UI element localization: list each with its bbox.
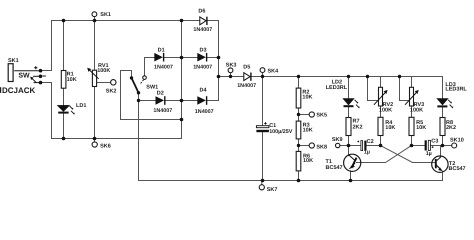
diode D2 xyxy=(156,96,165,105)
svg-text:D4: D4 xyxy=(200,88,208,94)
svg-text:1N4007: 1N4007 xyxy=(193,27,212,33)
LED LD3 xyxy=(437,99,448,105)
wire cross coupling to T1 base xyxy=(357,146,412,163)
wire top rail xyxy=(52,20,201,22)
wire SW1 net to bridge xyxy=(121,119,182,121)
svg-text:D5: D5 xyxy=(243,64,250,70)
svg-text:10K: 10K xyxy=(416,125,426,131)
wire T2 emitter to rail xyxy=(442,171,444,180)
LED LD1 xyxy=(57,105,69,111)
capacitor C2 plus mark xyxy=(357,141,359,143)
svg-text:BC547: BC547 xyxy=(326,165,343,171)
diode D1 xyxy=(154,53,163,62)
junction dots bottom rail xyxy=(62,137,66,141)
wire DC jack sleeve down xyxy=(41,83,52,139)
capacitor C1 plus xyxy=(264,122,267,125)
trimmer RV2 body xyxy=(379,87,383,106)
terminal SK1 top xyxy=(92,12,97,17)
svg-text:SK10: SK10 xyxy=(450,138,464,144)
wire SK7 stub xyxy=(261,181,263,185)
wire T1 emitter to rail xyxy=(350,171,352,181)
DC jack sleeve prong xyxy=(34,82,41,84)
svg-text:100K: 100K xyxy=(97,68,110,74)
resistor R7 xyxy=(346,118,351,136)
svg-text:LED3RL: LED3RL xyxy=(326,85,348,91)
switch SW1 lever xyxy=(132,78,139,93)
LED LD3 arrows xyxy=(448,100,452,107)
junction dots resistor column xyxy=(297,113,300,116)
LED LD1 arrows xyxy=(70,106,74,113)
svg-text:2K2: 2K2 xyxy=(353,124,363,130)
svg-text:C2: C2 xyxy=(367,139,374,145)
DC jack switch arrow xyxy=(32,78,36,82)
terminal SK9 xyxy=(336,143,340,147)
wire T1 collector xyxy=(348,146,350,156)
svg-text:D2: D2 xyxy=(157,91,164,97)
DC jack switch prong xyxy=(33,75,41,77)
resistor R4 xyxy=(378,117,383,135)
svg-text:BC547: BC547 xyxy=(449,166,466,172)
wire row2 left xyxy=(349,145,362,147)
svg-text:D1: D1 xyxy=(158,47,165,53)
wire bridge left vertical xyxy=(181,21,183,120)
switch SW1 dashes xyxy=(141,80,144,84)
wire LD2 R7 chain xyxy=(348,77,350,146)
wire RV2 chain xyxy=(380,77,382,146)
svg-text:1N4007: 1N4007 xyxy=(153,108,172,114)
resistor R3 xyxy=(296,121,301,139)
resistor R6 xyxy=(296,151,301,171)
svg-text:100K: 100K xyxy=(379,107,392,113)
svg-text:SK6: SK6 xyxy=(100,144,111,150)
wire RV1 chain xyxy=(94,17,96,139)
wire T2 collector xyxy=(440,146,442,157)
svg-text:1N4007: 1N4007 xyxy=(237,83,256,89)
wire C1 chain xyxy=(262,77,264,181)
wire R5 node to C3 xyxy=(412,145,425,147)
svg-text:DCJACK: DCJACK xyxy=(2,86,36,95)
svg-text:SK5: SK5 xyxy=(316,113,327,119)
resistor R8 xyxy=(440,118,445,136)
switch SW1 contact B circle xyxy=(143,76,147,80)
resistor R1 xyxy=(61,71,66,89)
wire SK5 stub xyxy=(299,114,310,116)
svg-text:LED3RL: LED3RL xyxy=(445,86,467,92)
svg-text:SK1: SK1 xyxy=(8,58,19,64)
svg-text:LD1: LD1 xyxy=(76,103,86,109)
terminal SK5 xyxy=(309,112,314,117)
terminal SK2 xyxy=(111,80,116,85)
capacitor C3 plates xyxy=(425,140,427,150)
wire SK3 stub xyxy=(230,73,232,77)
capacitor C3 plus mark xyxy=(432,146,434,148)
wire C2 to R4 node xyxy=(367,145,381,147)
wire SK6 stub xyxy=(94,139,96,142)
diode D5 xyxy=(244,73,250,81)
junction dots main rail xyxy=(229,75,232,78)
svg-text:SK7: SK7 xyxy=(267,187,278,193)
wire SW1 contact A feed xyxy=(121,71,132,120)
svg-text:100µ/25V: 100µ/25V xyxy=(269,129,293,135)
diode D4 xyxy=(197,96,206,105)
capacitor C1 plates xyxy=(256,126,269,128)
wire R2 R3 R6 chain xyxy=(298,77,300,181)
svg-text:D6: D6 xyxy=(198,9,205,15)
junction dots row2 xyxy=(347,144,351,148)
connector SK1 DC jack body xyxy=(8,64,13,82)
svg-text:SW: SW xyxy=(18,72,30,79)
diode D6 xyxy=(200,17,206,25)
diode D3 xyxy=(197,53,206,62)
svg-text:10K: 10K xyxy=(303,127,313,133)
junction dots DC jack pins xyxy=(39,69,43,73)
junction dots bridge xyxy=(180,56,184,60)
capacitor C2 plates xyxy=(361,141,363,151)
transistor T2 xyxy=(432,156,448,172)
terminal SK3 xyxy=(228,68,233,73)
wire SK8 stub xyxy=(299,145,310,147)
svg-text:10K: 10K xyxy=(385,125,395,131)
junction dots top rail xyxy=(62,19,66,23)
DC jack plus mark xyxy=(34,66,37,69)
wire SK2 stub xyxy=(97,82,111,84)
trimmer RV3 wiper arrow xyxy=(405,93,416,105)
svg-text:SK1: SK1 xyxy=(100,12,111,18)
wire RV3 chain xyxy=(411,77,413,146)
wire SK10 stub xyxy=(443,145,452,147)
svg-text:10K: 10K xyxy=(67,77,77,83)
svg-text:1µ: 1µ xyxy=(426,151,432,157)
svg-text:1N4007: 1N4007 xyxy=(193,64,212,70)
LED LD2 xyxy=(343,99,354,105)
wire bottom-left rail xyxy=(52,120,182,139)
terminal SK10 xyxy=(452,143,457,148)
trimmer RV3 body xyxy=(410,87,414,106)
DC jack tip prong xyxy=(14,70,40,72)
transistor T1 xyxy=(344,154,361,171)
svg-text:10K: 10K xyxy=(303,158,313,164)
wire LD3 R8 chain xyxy=(442,77,444,146)
svg-text:100K: 100K xyxy=(410,107,423,113)
wire R1 chain xyxy=(63,21,65,139)
trimmer RV1 body xyxy=(92,70,96,86)
wire SW1 common down xyxy=(138,93,140,101)
svg-text:SK2: SK2 xyxy=(106,88,117,94)
svg-text:C3: C3 xyxy=(431,138,438,144)
svg-text:1N4007: 1N4007 xyxy=(195,109,214,115)
junction dots SW1 xyxy=(130,76,133,79)
svg-text:2K2: 2K2 xyxy=(446,125,456,131)
wire SK9 stub xyxy=(340,145,349,147)
trimmer RV1 wiper arrow xyxy=(90,70,99,79)
resistor R5 xyxy=(409,117,414,135)
svg-text:SK3: SK3 xyxy=(226,63,237,69)
wire cross coupling to T2 base xyxy=(381,146,436,163)
svg-text:SK9: SK9 xyxy=(332,137,343,143)
terminal SK6 xyxy=(92,142,97,147)
wire DC jack plus to rail xyxy=(41,21,52,71)
wire RV2 wiper feed xyxy=(368,77,378,101)
svg-text:SK4: SK4 xyxy=(268,69,280,75)
wire C3 to R8 node xyxy=(431,145,443,147)
wire RV3 wiper feed xyxy=(400,77,409,101)
svg-text:D3: D3 xyxy=(200,47,207,53)
terminal SK8 xyxy=(309,143,314,148)
wire D1 row xyxy=(164,57,218,59)
wire main rail mid xyxy=(219,76,443,78)
wire SW1 contact B to D1 xyxy=(145,58,155,76)
wire bottom rail xyxy=(139,101,443,181)
terminal SK7 xyxy=(259,185,264,190)
wire SK4 stub xyxy=(262,73,264,77)
svg-text:1µ: 1µ xyxy=(364,149,370,155)
svg-text:1N4007: 1N4007 xyxy=(154,64,173,70)
wire top-right to bridge corner xyxy=(208,21,219,101)
svg-text:SK8: SK8 xyxy=(316,144,327,150)
wire D2 row xyxy=(139,100,219,102)
DC jack minus mark xyxy=(43,75,46,77)
trimmer RV2 wiper arrow xyxy=(374,93,385,105)
resistor R2 xyxy=(296,88,301,108)
svg-text:10K: 10K xyxy=(302,94,312,100)
LED LD2 arrows xyxy=(355,100,359,107)
terminal SK4 xyxy=(260,68,265,73)
